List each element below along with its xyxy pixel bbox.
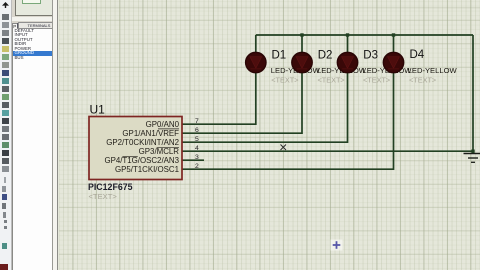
svg-text:D1: D1 [272,50,287,62]
junction dot D3 rail [346,33,349,36]
junction dot pin4/ground vertical [471,150,474,153]
svg-text:PIC12F675: PIC12F675 [88,182,133,192]
wire pin4 to ground rail [182,150,473,152]
LED D4 [383,49,457,85]
LED D2 [292,50,367,85]
LED D3 [337,50,412,85]
mouse x mark [281,145,287,151]
svg-text:<TEXT>: <TEXT> [89,192,118,201]
overline MCLR [157,147,179,149]
svg-text:GP3/MCLR: GP3/MCLR [139,147,180,156]
wire pin6 to LED D2 [182,35,302,133]
svg-text:D3: D3 [363,50,378,62]
svg-text:<TEXT>: <TEXT> [363,76,390,85]
wire pin7 to LED D1 [182,35,256,124]
svg-text:GP4/T1G/OSC2/AN3: GP4/T1G/OSC2/AN3 [104,156,179,165]
preview window [15,0,55,16]
IC U1 PIC12F675 [88,103,182,202]
svg-text:<TEXT>: <TEXT> [271,76,298,85]
white gap below preview [12,17,54,22]
object selector panel [12,0,57,270]
toolbar icons [2,2,9,8]
L divider [17,23,19,28]
ground [464,154,480,163]
blue cursor cross [331,240,343,251]
svg-text:6: 6 [195,127,199,134]
svg-text:GP0/AN0: GP0/AN0 [146,120,180,129]
svg-text:GP5/T1CKI/OSC1: GP5/T1CKI/OSC1 [115,165,179,174]
TERMINALS header [18,22,56,29]
wire pin2 to LED D4 [182,35,394,169]
svg-text:D2: D2 [318,50,333,62]
svg-text:D4: D4 [410,49,425,61]
svg-text:7: 7 [195,118,199,125]
svg-text:5: 5 [195,136,199,143]
terminal list box [12,29,55,270]
junction dot D2 rail [300,33,303,36]
svg-text:GP1/AN1/VREF: GP1/AN1/VREF [122,129,179,138]
P button [12,23,19,30]
svg-text:2: 2 [195,163,199,170]
svg-text:<TEXT>: <TEXT> [318,76,345,85]
svg-text:LED-YELLOW: LED-YELLOW [408,66,458,75]
ground rail wire (top horizontal) [256,34,473,36]
junction dot D4 rail [392,33,395,36]
overline T1G [122,156,137,158]
wire pin5 to LED D3 [182,35,348,142]
svg-text:U1: U1 [90,103,106,117]
pin 3 stub (unconnected) [182,159,204,161]
svg-text:4: 4 [195,145,199,152]
LED D1 [246,50,321,85]
left icon toolbar [0,0,12,270]
preview sheet outline [22,0,41,4]
svg-text:3: 3 [195,154,199,161]
wire right vertical to ground [472,35,474,153]
svg-text:<TEXT>: <TEXT> [409,76,436,85]
svg-text:GP2/T0CKI/INT/AN2: GP2/T0CKI/INT/AN2 [106,138,179,147]
overline VREF [158,128,179,130]
